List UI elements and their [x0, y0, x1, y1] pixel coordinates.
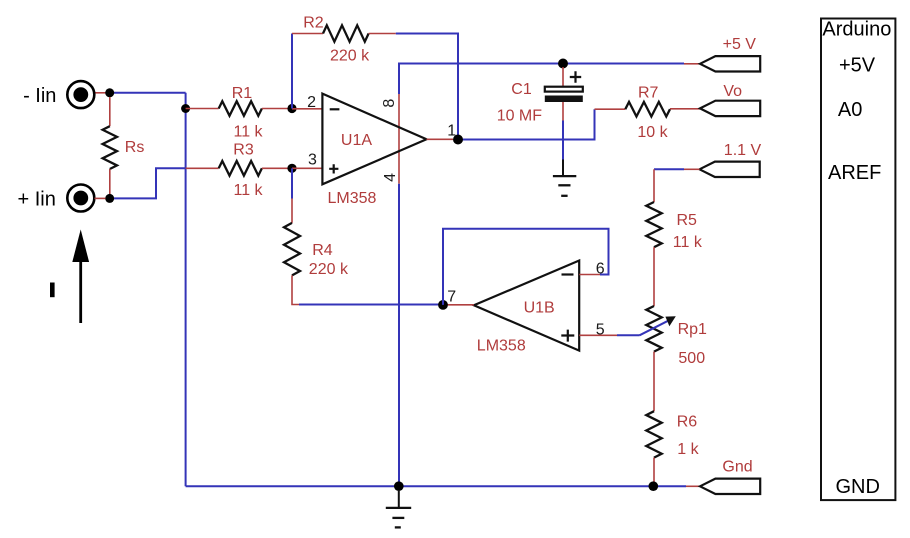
svg-text:11 k: 11 k	[234, 123, 264, 140]
wire pin 4 down to ground bus	[398, 184, 400, 487]
label I	[50, 283, 55, 298]
wire: R2 left leg	[292, 34, 323, 109]
op-amp U1A	[322, 94, 426, 185]
wire U1B feedback loop	[443, 229, 609, 305]
svg-text:Gnd: Gnd	[722, 459, 752, 476]
wire pin 5 to wiper	[579, 334, 639, 336]
svg-text:U1A: U1A	[341, 132, 372, 149]
svg-text:220 k: 220 k	[330, 48, 370, 65]
svg-text:2: 2	[307, 94, 316, 111]
svg-text:R4: R4	[312, 242, 333, 259]
node junction bus/opamp ground	[394, 481, 404, 491]
current arrow I	[72, 230, 89, 324]
svg-text:R7: R7	[638, 85, 659, 102]
resistor Rs	[103, 97, 117, 198]
svg-text:R3: R3	[233, 142, 254, 159]
node junction at -Iin	[105, 88, 114, 97]
wire pin 7 stub	[443, 304, 474, 306]
svg-text:7: 7	[447, 289, 456, 306]
svg-text:Vo: Vo	[723, 83, 742, 100]
resistor R4	[284, 223, 300, 276]
svg-text:R5: R5	[677, 212, 698, 229]
wire R6 to ground bus	[653, 458, 655, 487]
resistor R5	[646, 202, 661, 247]
wire pin3 stub	[292, 167, 322, 169]
svg-text:R2: R2	[303, 15, 324, 32]
ground (main)	[386, 490, 411, 527]
connector 1.1 V	[700, 162, 760, 177]
wire R7 to Vo	[670, 108, 700, 110]
svg-text:LM358: LM358	[477, 338, 526, 355]
svg-text:R6: R6	[677, 414, 698, 431]
svg-text:Rp1: Rp1	[678, 321, 707, 338]
wire: -Iin terminal to left vertical bus	[95, 92, 186, 94]
svg-text:220 k: 220 k	[309, 261, 349, 278]
svg-text:500: 500	[678, 350, 705, 367]
wire: R4 bottom leg to pin7 node	[292, 275, 443, 304]
svg-text:A0: A0	[838, 99, 862, 121]
connector Vo	[700, 101, 760, 116]
node junction pin2	[287, 104, 296, 113]
node junction pin7	[438, 300, 448, 310]
node junction pin3	[287, 164, 296, 173]
svg-text:1 k: 1 k	[677, 441, 699, 458]
svg-text:C1: C1	[511, 81, 532, 98]
resistor R2	[323, 25, 369, 41]
svg-text:11 k: 11 k	[673, 234, 703, 251]
node junction +5V / C1	[558, 59, 568, 69]
svg-text:+ Iin: + Iin	[18, 189, 56, 211]
node junction R1 tap	[181, 104, 190, 113]
terminal - Iin	[67, 81, 94, 108]
wire pin 8 / pin 4 vertical through U1A	[399, 64, 700, 184]
wire pin2 stub	[292, 108, 322, 110]
node junction bus/R6	[649, 481, 659, 491]
svg-text:10 k: 10 k	[637, 124, 668, 141]
op-amp U1B	[474, 261, 579, 351]
svg-text:AREF: AREF	[828, 162, 881, 184]
connector +5 V	[700, 56, 760, 71]
svg-text:10 MF: 10 MF	[497, 108, 543, 125]
resistor R7	[625, 102, 670, 117]
wire ground bus	[186, 485, 700, 487]
svg-text:3: 3	[308, 151, 317, 168]
wire: R4 top leg	[291, 168, 293, 223]
wire: R2 right leg to pin1 node	[369, 34, 458, 140]
svg-text:LM358: LM358	[328, 190, 377, 207]
svg-text:- Iin: - Iin	[23, 85, 56, 107]
wire Rp1 to R6	[653, 352, 655, 412]
wire: +Iin to R3	[95, 168, 187, 198]
svg-text:Arduino: Arduino	[822, 18, 891, 40]
svg-text:+5 V: +5 V	[723, 36, 757, 53]
node junction at +Iin	[105, 194, 114, 203]
svg-text:GND: GND	[836, 476, 880, 498]
svg-text:4: 4	[382, 173, 399, 182]
terminal + Iin	[67, 185, 94, 212]
resistor R6	[646, 411, 661, 457]
node junction pin1	[453, 135, 463, 145]
svg-text:R1: R1	[232, 85, 253, 102]
resistor R1	[186, 101, 292, 116]
potentiometer Rp1	[640, 306, 676, 352]
capacitor C1	[545, 67, 583, 160]
resistor R3	[186, 161, 292, 176]
Arduino box	[821, 19, 895, 501]
wire pin 1	[427, 109, 626, 139]
wire R5 to Rp1	[653, 247, 655, 306]
wire 1.1V to R5	[654, 169, 700, 202]
ground (C1)	[553, 160, 576, 196]
connector Gnd	[700, 479, 760, 494]
wire: left vertical bus (ground net)	[185, 93, 187, 486]
svg-text:U1B: U1B	[524, 300, 555, 317]
svg-text:+5V: +5V	[839, 54, 876, 76]
svg-text:11 k: 11 k	[234, 182, 264, 199]
svg-text:1.1 V: 1.1 V	[724, 142, 762, 159]
svg-text:8: 8	[381, 99, 398, 108]
svg-text:Rs: Rs	[125, 139, 145, 156]
